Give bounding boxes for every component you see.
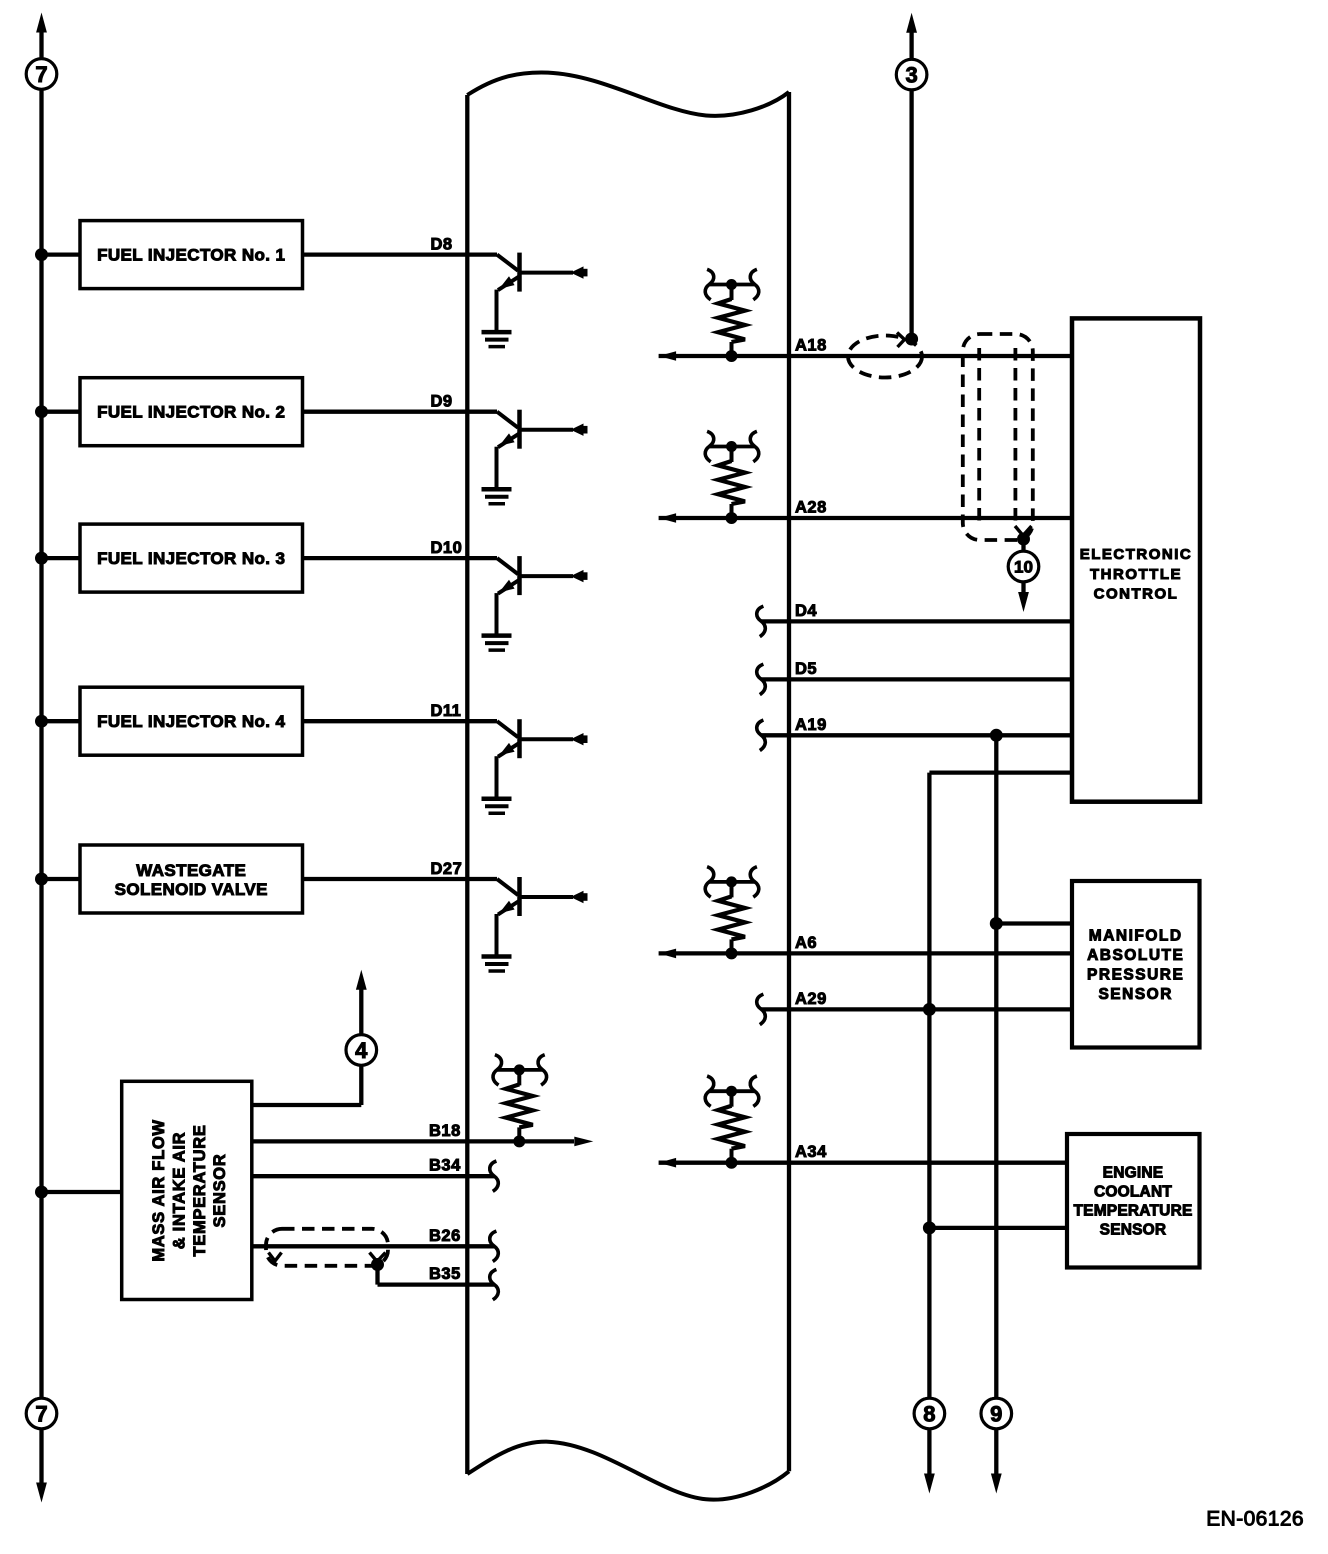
svg-text:D10: D10	[431, 539, 463, 557]
svg-text:ELECTRONIC: ELECTRONIC	[1080, 546, 1193, 563]
svg-text:FUEL INJECTOR No. 1: FUEL INJECTOR No. 1	[97, 246, 285, 265]
svg-text:8: 8	[923, 1401, 935, 1426]
svg-text:FUEL INJECTOR No. 2: FUEL INJECTOR No. 2	[97, 403, 285, 422]
svg-text:D9: D9	[431, 393, 453, 411]
svg-text:WASTEGATE: WASTEGATE	[136, 861, 246, 880]
svg-text:FUEL INJECTOR No. 4: FUEL INJECTOR No. 4	[97, 712, 285, 731]
svg-text:B35: B35	[429, 1265, 461, 1283]
svg-text:7: 7	[35, 62, 47, 87]
svg-text:B18: B18	[429, 1122, 461, 1140]
svg-text:7: 7	[35, 1401, 47, 1426]
svg-text:ENGINE: ENGINE	[1103, 1164, 1164, 1181]
svg-text:A29: A29	[795, 990, 827, 1008]
svg-text:A6: A6	[795, 934, 817, 952]
svg-text:MANIFOLD: MANIFOLD	[1089, 927, 1183, 944]
svg-text:10: 10	[1014, 558, 1033, 577]
svg-text:D8: D8	[431, 236, 453, 254]
svg-text:A18: A18	[795, 337, 827, 355]
svg-text:TEMPERATURE: TEMPERATURE	[1073, 1202, 1192, 1219]
svg-text:MASS AIR FLOW: MASS AIR FLOW	[150, 1119, 168, 1261]
svg-text:D4: D4	[795, 602, 817, 620]
svg-text:D27: D27	[431, 860, 463, 878]
svg-text:B34: B34	[429, 1157, 461, 1175]
svg-text:D5: D5	[795, 660, 817, 678]
svg-text:B26: B26	[429, 1227, 461, 1245]
svg-text:SENSOR: SENSOR	[1098, 986, 1172, 1003]
svg-text:9: 9	[990, 1401, 1002, 1426]
svg-text:SENSOR: SENSOR	[211, 1154, 229, 1228]
svg-text:ABSOLUTE: ABSOLUTE	[1087, 947, 1184, 964]
svg-text:3: 3	[905, 63, 917, 88]
svg-text:SENSOR: SENSOR	[1100, 1221, 1167, 1238]
svg-text:SOLENOID VALVE: SOLENOID VALVE	[115, 880, 268, 899]
svg-text:PRESSURE: PRESSURE	[1087, 967, 1184, 984]
svg-text:CONTROL: CONTROL	[1094, 585, 1179, 602]
svg-text:& INTAKE AIR: & INTAKE AIR	[170, 1132, 188, 1249]
svg-text:COOLANT: COOLANT	[1094, 1183, 1172, 1200]
svg-text:4: 4	[355, 1038, 368, 1063]
svg-text:A28: A28	[795, 499, 827, 517]
svg-text:A34: A34	[795, 1143, 827, 1161]
svg-text:FUEL INJECTOR No. 3: FUEL INJECTOR No. 3	[97, 549, 285, 568]
svg-text:TEMPERATURE: TEMPERATURE	[191, 1124, 209, 1256]
svg-text:THROTTLE: THROTTLE	[1090, 566, 1182, 583]
svg-text:A19: A19	[795, 716, 827, 734]
svg-text:EN-06126: EN-06126	[1206, 1508, 1304, 1531]
svg-text:D11: D11	[431, 702, 462, 720]
